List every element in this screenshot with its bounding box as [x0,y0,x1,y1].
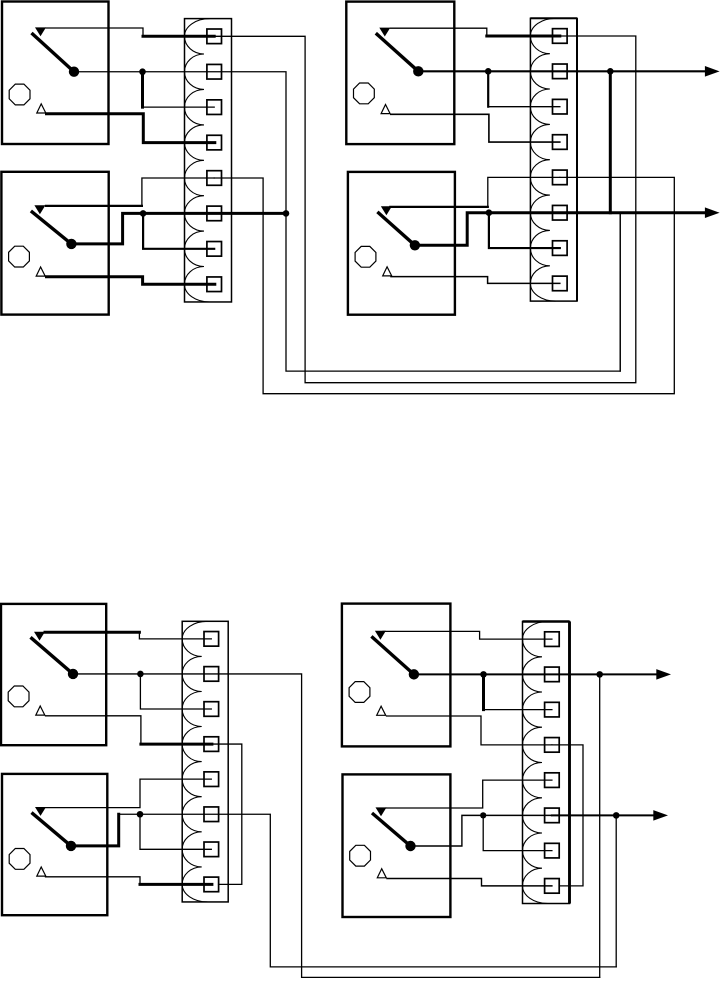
blade arrowhead [35,27,46,36]
open triangle contact [381,105,390,114]
terminal TB4 pin 8 [545,879,560,894]
switch box S7 [342,604,451,747]
wire junction to TB4 pin3 [482,674,485,709]
terminal TB3 pin 6 [204,807,219,822]
terminal TB2 pin 4 [553,135,568,150]
enclosure [2,2,109,145]
wire junction to TB2 pin3 [487,71,489,106]
wire S6 triangle to TB3 pin8 [46,877,141,885]
pivot contact [66,841,76,851]
wire S1 triangle to TB1 pin4 [47,114,215,143]
terminal TB4 pin 6 [545,808,560,823]
wire S8 triangle to TB4 pin8 [387,879,552,886]
wire TB1 pin5 to TB2 pin5 (net C) [214,177,674,393]
switch blade [376,33,419,71]
blade arrowhead [381,206,392,215]
wire TB3 pin4 loop to TB3 pin8 [211,744,242,884]
node net A tie [283,210,290,217]
octagon indicator [9,246,30,267]
node S4 pivot junction [486,209,493,216]
terminal TB3 pin 8 [204,877,219,892]
node S7 pivot junction [480,671,487,678]
pivot contact [68,669,78,679]
terminal TB1 pin 6 [207,206,222,221]
wire S1 pivot through TB1 pin2 (net A) [74,72,620,371]
terminal TB2 pin 6 [553,205,568,220]
terminal TB3 pin 3 [204,702,219,717]
terminal TB1 pin 4 [207,135,222,150]
wire S2 blade-arrow to TB1 pin5 [46,205,142,207]
terminal TB1 pin 7 [207,242,222,257]
terminal TB1 pin 3 [207,100,222,115]
terminal TB1 pin 8 [207,277,222,292]
octagon indicator [349,682,370,703]
switch box S5 [1,604,106,745]
switch box S4 [348,172,455,315]
wire S3 pivot through TB2 pin2 to output arrow 1 [418,70,706,72]
connector arcs [182,621,207,902]
wire arrow2 branch down (net A) [619,213,621,371]
wire junction to TB1 pin3 [141,72,144,107]
enclosure [342,604,451,747]
octagon indicator [9,849,30,870]
terminal strip TB3 [182,621,228,902]
open triangle contact [36,706,45,715]
terminal TB2 pin 7 [553,241,568,256]
wire S2 triangle to TB1 pin8 [47,277,215,284]
terminal TB3 pin 1 [204,632,219,647]
wire S5 blade-arrow to TB3 pin1 [45,631,139,634]
terminal TB2 pin 5 [553,170,568,185]
switch blade [32,33,75,72]
node S1 pivot junction [139,68,146,75]
wire S3 triangle to TB2 pin4 [391,114,560,142]
terminal TB4 pin 2 [545,667,560,682]
wire arrow3 branch down to bottom bus (net D) [599,674,601,977]
enclosure [2,774,107,915]
enclosure [1,604,106,745]
terminal TB3 pin 2 [204,667,219,682]
wire junction to TB1 pin7 [143,213,214,248]
switch blade [372,813,411,846]
connector arcs [184,19,209,302]
wire S1 blade-arrow to TB1 pin1 [46,28,143,36]
open triangle contact [377,706,386,715]
wire pivot bus link [609,71,612,212]
wire S8 pivot through TB4 pin6 to output arrow 4 [414,815,552,846]
blade arrowhead [34,632,45,641]
output arrow 2 [705,207,720,218]
wire S5 triangle to TB3 pin4 [46,716,141,744]
switch box S2 [1,172,108,315]
blade arrowhead [379,28,390,37]
blade arrowhead [35,807,46,816]
node arrow1 branch [607,68,614,75]
terminal TB4 pin 1 [545,632,560,647]
node S6 pivot junction [137,811,144,818]
terminal TB1 pin 2 [207,64,222,79]
pivot contact [410,240,420,250]
wire TB4 pin4 loop to TB4 pin8 [552,745,583,886]
blade arrowhead [375,631,386,640]
wire junction to TB2 pin7 [489,213,560,248]
terminal TB2 pin 1 [553,29,568,44]
switch blade [371,636,414,674]
octagon indicator [9,84,30,105]
octagon indicator [350,845,371,866]
wire junction to TB3 pin7 [140,814,211,849]
open triangle contact [377,869,386,878]
wire S4 blade-arrow to TB2 pin5 [390,206,488,208]
open triangle contact [37,867,46,876]
wire junction to TB3 pin3 [140,674,211,709]
switch blade [31,211,72,244]
wire arrow4 branch down to bottom bus (net E) [615,815,617,967]
terminal strip TB4 [522,622,569,904]
octagon indicator [354,83,375,104]
switch box S1 [2,2,109,145]
node S3 pivot junction [485,68,492,75]
output arrow 3 [656,669,671,680]
node S8 pivot junction [480,812,486,818]
terminal TB1 pin 1 [207,29,222,44]
blade arrowhead [376,807,387,816]
terminal TB4 pin 4 [545,738,560,753]
wire S7 triangle to TB4 pin4 [387,716,552,745]
terminal TB4 pin 5 [545,773,560,788]
terminal strip TB2 [530,18,577,301]
switch box S3 [346,2,454,145]
terminal strip TB1 [184,19,231,302]
wire junction to TB4 pin7 [483,815,552,850]
node arrow3 branch [596,671,603,678]
strip body [182,621,228,902]
strip body [530,18,577,301]
terminal TB4 pin 3 [545,702,560,717]
wire S7 blade-arrow to TB4 pin1 [383,631,552,639]
pivot contact [413,66,423,76]
octagon indicator [355,246,376,267]
terminal TB4 pin 7 [545,843,560,858]
switch blade [31,637,74,674]
switch box S8 [343,774,451,917]
node S2 pivot junction [140,210,147,217]
enclosure [343,774,451,917]
terminal TB3 pin 5 [204,772,219,787]
node arrow4 branch [613,812,620,819]
enclosure [346,2,454,145]
switch blade [32,813,72,846]
wire S8 blade-arrow to TB4 pin5 [386,780,552,808]
wire S7 pivot through TB4 pin2 to output arrow 3 [414,673,657,675]
terminal TB1 pin 5 [207,171,222,186]
pivot contact [409,669,419,679]
node S5 pivot junction [137,671,144,678]
switch box S6 [2,774,107,915]
wire S3 blade-arrow to TB2 pin1 [390,28,487,36]
octagon indicator [8,686,29,707]
enclosure [1,172,108,315]
terminal TB2 pin 2 [553,64,568,79]
pivot contact [405,841,415,851]
open triangle contact [383,267,392,276]
wire S6 pivot through TB3 pin6 down to bottom bus (net E) [74,814,119,846]
strip body [523,622,570,904]
wire TB1 pin1 to TB2 pin1 (net B) [214,36,636,383]
open triangle contact [36,267,45,276]
terminal TB2 pin 8 [553,276,568,291]
wire S5 pivot through TB3 pin2 down to bottom bus (net D) [73,674,600,977]
enclosure [348,172,455,315]
output arrow 4 [653,810,668,821]
blade arrowhead [34,205,45,214]
wire S2 pivot through TB1 pin6 to node [73,213,286,243]
terminal TB3 pin 4 [204,737,219,752]
strip body [185,19,232,302]
wire S4 pivot through TB2 pin6 to output arrow 2 [419,213,706,246]
pivot contact [69,67,79,77]
switch blade [377,212,415,245]
wire S4 triangle to TB2 pin8 [391,277,560,284]
pivot contact [66,239,76,249]
output arrow 1 [705,66,720,77]
terminal TB2 pin 3 [553,99,568,114]
terminal TB3 pin 7 [204,842,219,857]
wire S6 blade-arrow to TB3 pin5 [45,779,211,807]
open triangle contact [37,104,46,113]
connector arcs [530,18,555,301]
connector arcs [522,622,547,904]
